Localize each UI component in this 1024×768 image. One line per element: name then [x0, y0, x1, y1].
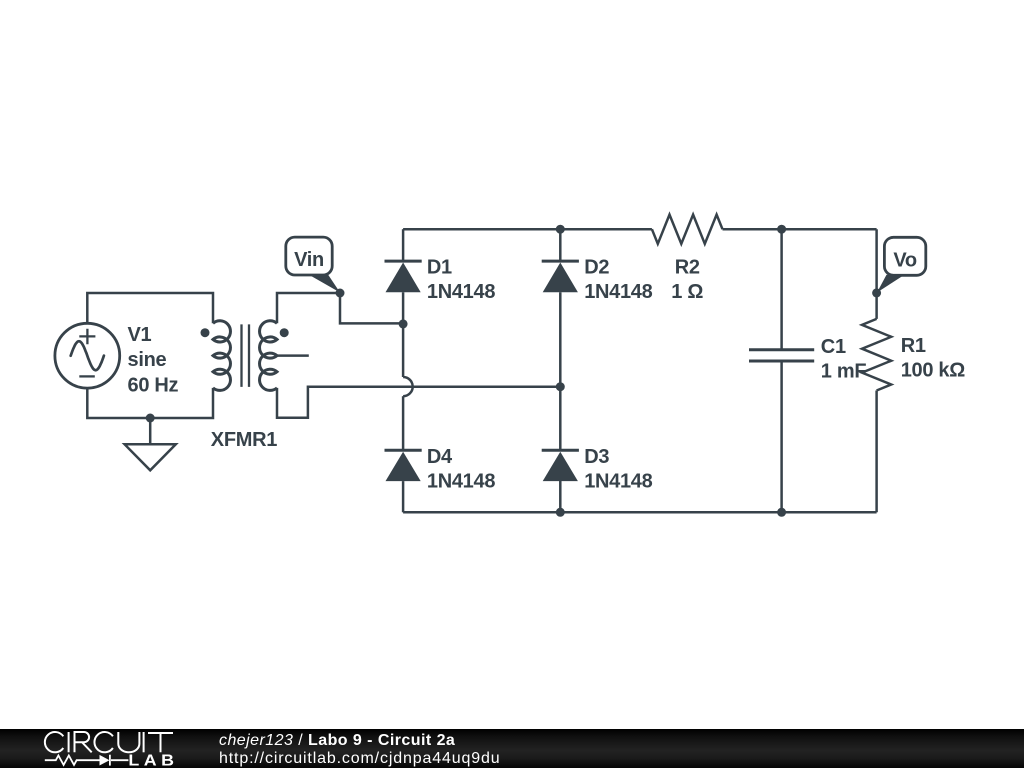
svg-text:R1: R1 [901, 335, 926, 357]
svg-text:1N4148: 1N4148 [427, 470, 495, 492]
svg-text:1N4148: 1N4148 [427, 281, 495, 303]
svg-text:60 Hz: 60 Hz [128, 375, 179, 397]
svg-text:V1: V1 [128, 324, 152, 346]
svg-text:1N4148: 1N4148 [584, 281, 652, 303]
svg-text:1N4148: 1N4148 [584, 470, 652, 492]
svg-text:XFMR1: XFMR1 [211, 429, 277, 451]
svg-text:Vo: Vo [893, 249, 917, 271]
svg-text:R2: R2 [675, 257, 700, 279]
svg-text:LAB: LAB [128, 751, 178, 768]
svg-text:D2: D2 [584, 257, 609, 279]
svg-text:Vin: Vin [294, 249, 324, 271]
svg-text:D3: D3 [584, 446, 609, 468]
svg-text:1 Ω: 1 Ω [671, 281, 703, 303]
svg-text:100 kΩ: 100 kΩ [901, 359, 966, 381]
svg-text:D4: D4 [427, 446, 453, 468]
svg-text:C1: C1 [821, 336, 846, 358]
svg-text:D1: D1 [427, 257, 452, 279]
svg-text:sine: sine [128, 349, 167, 371]
svg-text:1 mF: 1 mF [821, 361, 867, 383]
